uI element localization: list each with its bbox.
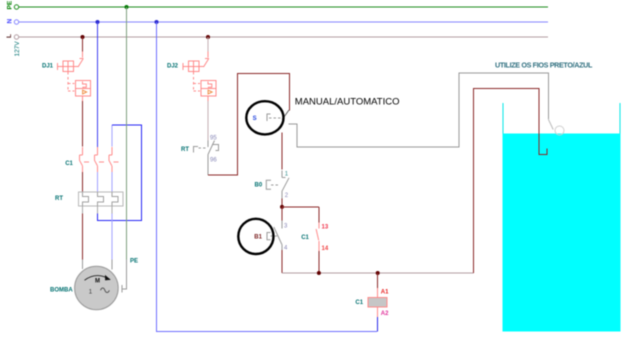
linkage C1 poles bbox=[84, 161, 89, 163]
junction C1 aux bottom bbox=[317, 271, 321, 275]
svg-text:C1: C1 bbox=[355, 300, 363, 306]
svg-text:PE: PE bbox=[130, 259, 138, 265]
wire pole3 to RT bbox=[111, 172, 113, 192]
svg-text:MANUAL/AUTOMATICO: MANUAL/AUTOMATICO bbox=[295, 97, 400, 108]
wire L to DJ1 bbox=[82, 37, 84, 52]
overload RT element pole3 bbox=[112, 192, 118, 206]
junction L to DJ1 bbox=[81, 35, 85, 39]
svg-text:BOMBA: BOMBA bbox=[50, 287, 73, 293]
junction coil tap bbox=[376, 271, 380, 275]
node L bus label bbox=[6, 34, 13, 38]
wire L bus bbox=[19, 36, 548, 38]
svg-text:13: 13 bbox=[322, 225, 329, 231]
wire DJ2 to RT contact bbox=[207, 101, 209, 141]
svg-text:C1: C1 bbox=[65, 161, 73, 167]
svg-text:A1: A1 bbox=[381, 290, 389, 296]
wire N to C1 pole2 bbox=[97, 22, 99, 147]
svg-text:14: 14 bbox=[322, 246, 329, 252]
node PE bus terminal circle bbox=[14, 5, 18, 9]
wire N bus bbox=[19, 21, 548, 23]
wire B1 to bottom line bbox=[281, 250, 283, 273]
motor rotation arrow bbox=[85, 276, 111, 281]
svg-text:C1: C1 bbox=[301, 235, 309, 241]
svg-text:DJ1: DJ1 bbox=[42, 64, 54, 70]
coil C1 bbox=[368, 298, 387, 308]
junction PE down bbox=[125, 5, 129, 9]
wire junction to B1 bbox=[281, 207, 283, 221]
wire RT pole3 to motor bbox=[111, 214, 113, 260]
svg-text:127V: 127V bbox=[14, 41, 21, 57]
node N bus label bbox=[7, 19, 14, 24]
breaker DJ2 bbox=[183, 52, 216, 102]
selector switch S bbox=[267, 114, 281, 121]
junction B0 out bbox=[280, 205, 284, 209]
wire S common to B0 bbox=[281, 133, 283, 170]
wire N return bbox=[377, 317, 379, 332]
wire N loop pole2 to pole3 bbox=[98, 125, 142, 221]
wire bottom rail up to tank float bbox=[474, 89, 548, 274]
wire pole2 to RT bbox=[97, 172, 99, 192]
junction L to DJ2 bbox=[206, 35, 210, 39]
wire L to DJ2 bbox=[207, 37, 209, 52]
symbol ~ bbox=[101, 288, 110, 293]
svg-text:B1: B1 bbox=[254, 235, 262, 241]
svg-text:RT: RT bbox=[55, 196, 63, 202]
wire PE bus bbox=[19, 6, 548, 8]
contact C1 pole3 bbox=[109, 147, 112, 172]
tank water bbox=[503, 134, 621, 332]
svg-text:N: N bbox=[7, 19, 14, 24]
contact C1 pole1 bbox=[80, 147, 83, 172]
svg-text:DJ2: DJ2 bbox=[167, 64, 179, 70]
svg-text:S: S bbox=[253, 116, 257, 122]
wire S automatic contact to tank (gray) bbox=[289, 73, 549, 147]
contact C1 13-14 bbox=[316, 222, 319, 251]
tank wall left bbox=[502, 103, 504, 134]
wire RT96 to S switch (maroon loop up) bbox=[208, 73, 290, 175]
pushbutton B1 (NO) bbox=[267, 221, 282, 251]
junction N to coil return bbox=[155, 20, 159, 24]
node N bus terminal circle bbox=[14, 20, 18, 24]
svg-text:M: M bbox=[95, 279, 100, 285]
node L 127V label bbox=[14, 41, 21, 57]
wire pole1 to RT bbox=[82, 172, 84, 192]
svg-text:RT: RT bbox=[181, 147, 189, 153]
float switch blade bbox=[548, 119, 553, 129]
float switch ball bbox=[555, 126, 564, 135]
node L bus terminal circle bbox=[14, 35, 18, 39]
wire coil A2 down bbox=[377, 307, 379, 317]
wire RT pole1 to motor bbox=[82, 206, 84, 213]
junction N to C1 pole2 bbox=[96, 20, 100, 24]
svg-text:A2: A2 bbox=[381, 311, 389, 317]
overload RT element pole1 bbox=[83, 192, 89, 206]
terminal PE bar bbox=[121, 285, 123, 293]
overload RT element pole2 bbox=[98, 192, 104, 206]
breaker DJ1 bbox=[58, 52, 91, 102]
wire C1 aux to bottom line bbox=[318, 251, 320, 273]
wire PE to motor frame bbox=[122, 286, 127, 289]
overload RT box bbox=[79, 192, 123, 206]
contact RT 95-96 bbox=[194, 141, 219, 175]
tank wall right bbox=[619, 103, 621, 134]
svg-text:L: L bbox=[6, 34, 13, 38]
svg-text:95: 95 bbox=[210, 136, 217, 142]
wire bottom rail bbox=[282, 272, 474, 274]
switch S blade bbox=[282, 110, 289, 119]
node PE bus label bbox=[7, 0, 14, 9]
contact C1 pole2 bbox=[95, 147, 98, 172]
svg-text:UTILIZE OS FIOS PRETO/AZUL: UTILIZE OS FIOS PRETO/AZUL bbox=[495, 61, 593, 70]
wire PE down bbox=[126, 7, 128, 259]
motor BOMBA body bbox=[75, 266, 119, 310]
wire junction to coil A1 bbox=[377, 273, 379, 288]
wire B0 to junction bbox=[281, 199, 283, 207]
pushbutton B0 (NC) bbox=[266, 171, 289, 199]
svg-text:PE: PE bbox=[7, 0, 14, 9]
op circle B1 bbox=[238, 219, 273, 254]
wire loop top to C1 pole3 bbox=[111, 125, 113, 147]
svg-text:B0: B0 bbox=[255, 182, 263, 188]
wire junction to C1 aux branch bbox=[282, 206, 319, 208]
svg-text:96: 96 bbox=[210, 158, 217, 164]
op circle S bbox=[246, 101, 283, 134]
wire DJ1 to C1 pole1 bbox=[82, 101, 84, 147]
